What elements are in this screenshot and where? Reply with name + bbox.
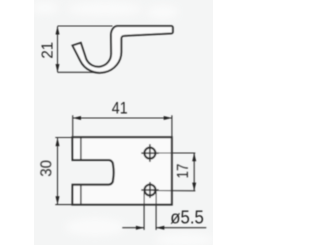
dim 21 top extension line xyxy=(58,25,113,27)
dim 17 lower arrow xyxy=(192,183,196,191)
svg-text:21: 21 xyxy=(39,42,56,59)
dim 41 left extension line xyxy=(72,115,74,137)
hole H1 center mark vertical xyxy=(149,144,151,162)
svg-text:ø5.5: ø5.5 xyxy=(170,208,204,228)
svg-text:30: 30 xyxy=(38,160,55,177)
dim 30 upper arrow xyxy=(56,138,60,146)
plate front-view outline with slot xyxy=(72,137,171,204)
dim 41 dimension line xyxy=(73,117,172,119)
dim 17 upper extension line xyxy=(153,152,196,154)
hole H2 center mark vertical xyxy=(149,182,151,198)
bend line upper segment xyxy=(80,138,82,160)
dim 30 top extension line xyxy=(55,137,72,139)
dim 5.5 right arrow xyxy=(156,226,164,230)
hole H2 center mark horizontal xyxy=(141,189,158,191)
dim 41 right extension line xyxy=(171,115,173,137)
dim 41 right arrow xyxy=(164,116,172,120)
svg-text:17: 17 xyxy=(175,164,192,179)
dim 5.5 right extension line xyxy=(155,190,157,230)
dim 41 left arrow xyxy=(73,116,81,120)
scan paper background xyxy=(34,0,213,245)
hole H1 circle xyxy=(144,148,155,159)
dim 5.5 dimension line right segment xyxy=(156,227,206,229)
hole H2 circle xyxy=(145,185,156,196)
dim 5.5 left extension line xyxy=(143,190,145,230)
dim 5.5 left arrow xyxy=(136,226,144,230)
dim 30 dimension line xyxy=(57,138,59,204)
dim 17 upper arrow xyxy=(192,153,196,161)
dim 21 lower arrow xyxy=(56,64,60,72)
dim 21 dimension line xyxy=(57,27,59,73)
dim 21 bottom extension line xyxy=(58,71,97,73)
hole H1 center mark horizontal xyxy=(141,152,158,154)
bend line lower segment xyxy=(80,185,82,205)
dim 5.5 dimension line left segment xyxy=(122,227,144,229)
svg-text:41: 41 xyxy=(112,100,128,118)
scan mottling highlights xyxy=(31,2,215,247)
dim 17 dimension line xyxy=(193,153,195,190)
dim 30 lower arrow xyxy=(56,196,60,204)
dim 21 upper arrow xyxy=(56,26,60,34)
dim 17 lower extension line xyxy=(153,190,196,192)
dim 30 bottom extension line xyxy=(55,204,72,206)
hook side-view outline xyxy=(73,26,173,73)
